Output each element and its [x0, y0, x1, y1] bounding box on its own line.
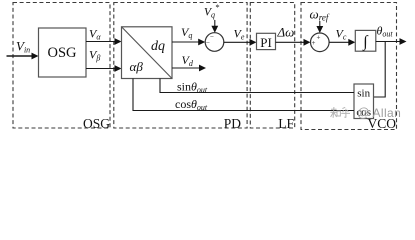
wire Vd	[172, 65, 206, 72]
svg-text:OSG: OSG	[47, 45, 77, 61]
svg-text:OSG: OSG	[83, 116, 110, 131]
wire Vq	[172, 39, 205, 46]
svg-text:PD: PD	[224, 116, 242, 131]
svg-text:sin: sin	[357, 88, 370, 100]
block integrator U3	[355, 30, 376, 51]
svg-text:Δω: Δω	[277, 25, 295, 40]
wire feedback branch to sin/cos	[374, 42, 386, 98]
svg-text:+: +	[317, 34, 321, 42]
wire S2 to integrator, label Vc	[329, 39, 355, 46]
wire S1 to PI	[224, 39, 257, 46]
wire Vq* into summer	[211, 20, 218, 33]
svg-text:αβ: αβ	[130, 59, 144, 74]
watermark zhihu logo glyphs (vector)	[330, 107, 350, 118]
svg-text:LF: LF	[278, 116, 294, 131]
block dq/alphabeta transform U2	[122, 27, 173, 79]
wire Vbeta	[86, 65, 122, 72]
svg-text:−: −	[210, 33, 214, 41]
wire omega ref into summer	[316, 21, 323, 33]
svg-text:PI: PI	[260, 35, 272, 50]
svg-text:dq: dq	[151, 39, 165, 54]
dashed region VCO	[301, 3, 397, 130]
svg-text:Allan: Allan	[373, 106, 402, 120]
wire PI to S2	[276, 39, 311, 46]
svg-text:+: +	[312, 39, 316, 47]
summing junction S1	[205, 33, 224, 52]
summing junction S2	[311, 33, 330, 52]
wire Valpha	[86, 38, 122, 45]
block sin/cos U4	[354, 84, 374, 119]
wire sin theta feedback	[160, 79, 354, 93]
wire cos theta feedback	[133, 79, 354, 111]
dashed region OSG	[13, 3, 110, 129]
svg-text:−: −	[206, 39, 210, 47]
dashed region PD	[114, 3, 247, 129]
block PI controller	[257, 33, 276, 50]
dashed region LF	[250, 3, 294, 129]
wire theta out	[376, 38, 407, 45]
block OSG U1	[39, 28, 87, 77]
svg-text:@: @	[357, 106, 370, 120]
wire Vin input	[7, 53, 39, 60]
